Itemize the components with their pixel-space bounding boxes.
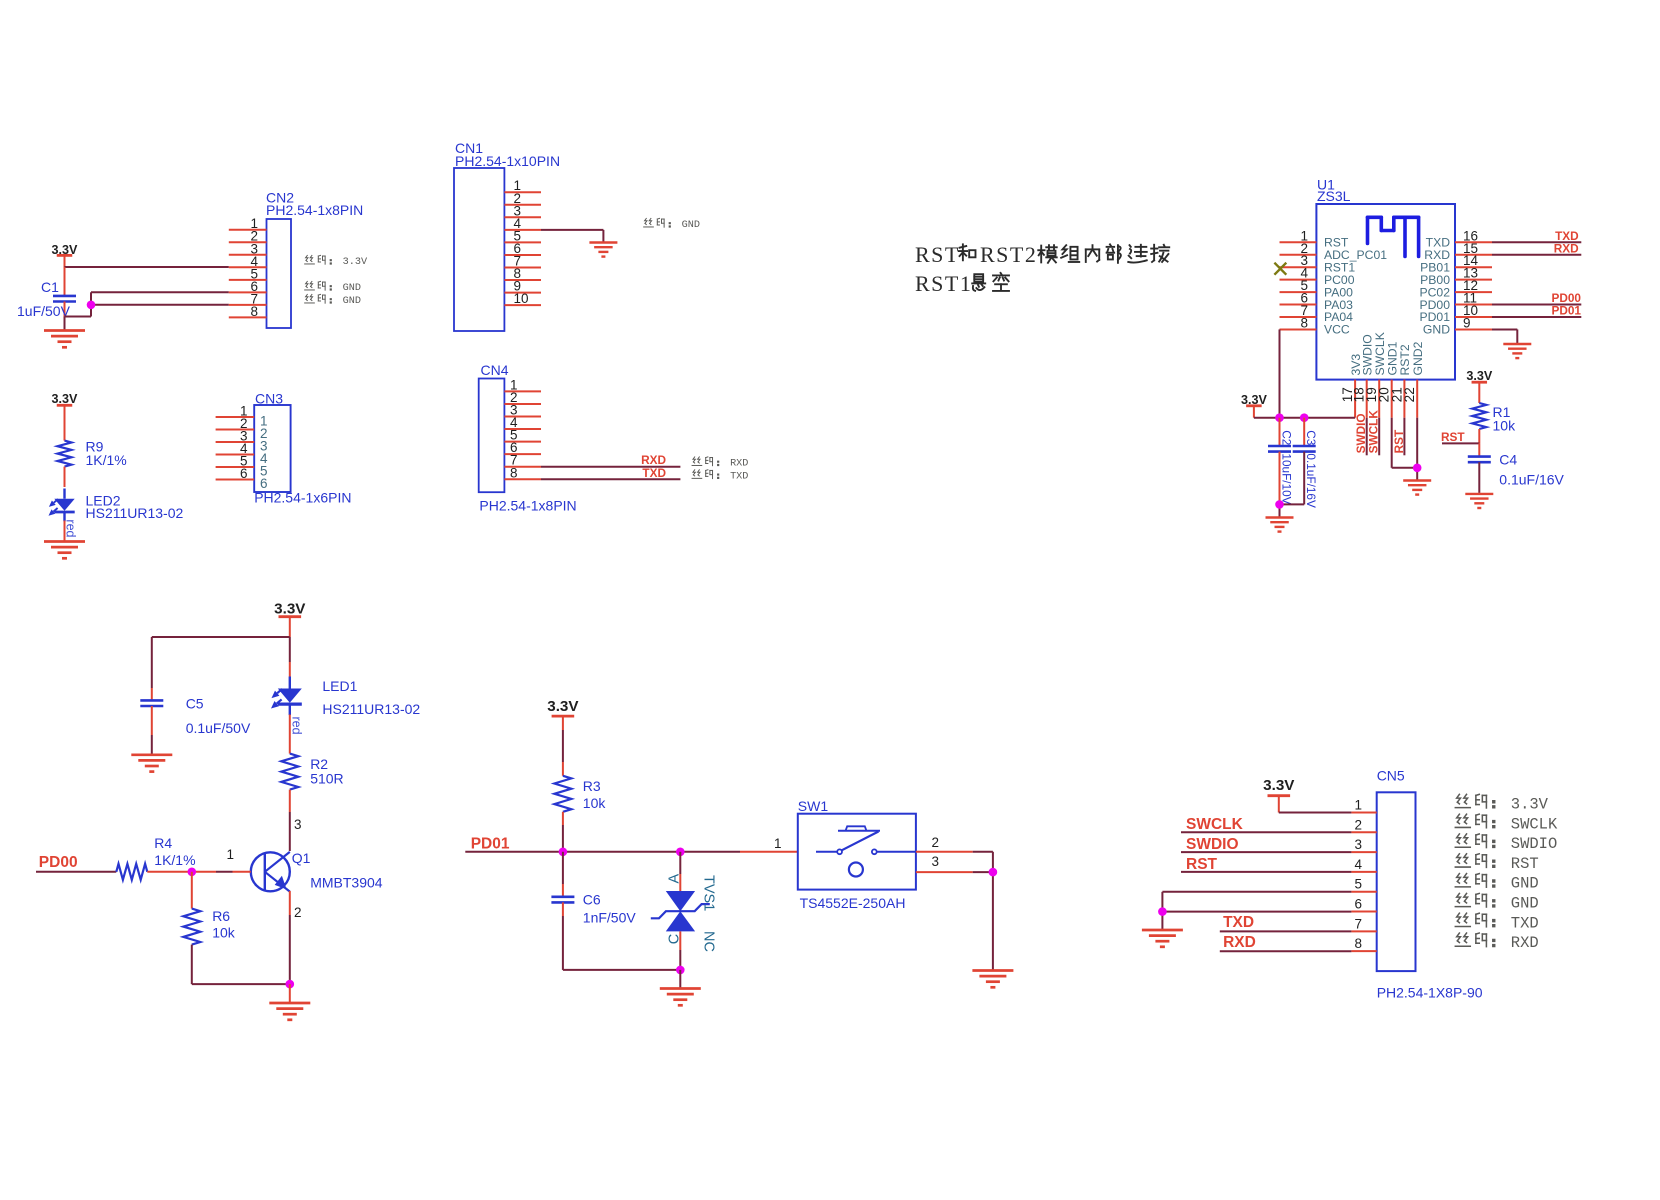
net label RXD at CN5 [1223,934,1256,951]
svg-text:RXD: RXD [1554,242,1579,256]
svg-text:SWCLK: SWCLK [1367,410,1381,454]
transistor Q1 MMBT3904 [251,850,383,892]
svg-text:CN3: CN3 [255,391,283,407]
resistor R1 10k [1472,403,1516,434]
svg-text:3: 3 [932,854,940,869]
svg-text:SW1: SW1 [798,798,829,814]
svg-text:6: 6 [240,466,248,481]
node junction rail/C2 [1275,413,1284,422]
TVS diode TVS1 [651,852,710,970]
svg-text:RST: RST [1392,429,1406,453]
svg-text:0.1uF/16V: 0.1uF/16V [1304,453,1318,508]
svg-text:1: 1 [774,836,782,851]
wire R2 to Q1 collector, pin 3 [289,790,291,851]
svg-text:C6: C6 [583,892,601,908]
note text RST internal connection line1 [915,242,1169,267]
ground at CN1 pin4 [589,243,617,257]
svg-text:5: 5 [1354,877,1362,892]
svg-text:0.1uF/50V: 0.1uF/50V [186,720,251,736]
capacitor C5 0.1uF/50V [140,688,251,736]
svg-text:C3: C3 [1304,430,1318,446]
svg-text:8: 8 [510,465,518,480]
svg-text:TXD: TXD [730,471,748,482]
svg-text:PH2.54-1X8P-90: PH2.54-1X8P-90 [1377,985,1483,1001]
svg-text:10k: 10k [212,925,236,941]
wire Q1 emitter down [289,891,291,984]
svg-text:PD00: PD00 [39,854,78,871]
svg-text:HS211UR13-02: HS211UR13-02 [322,701,420,717]
no-connect X on U1 pin3 RST1 [1274,263,1286,275]
node junction PD01/R3/C6 [559,848,568,857]
svg-text:1nF/50V: 1nF/50V [583,910,637,926]
wire R3 to PD01 node [562,812,564,852]
svg-text:NC: NC [701,931,717,952]
svg-text:red: red [289,717,303,735]
svg-text:R6: R6 [212,908,230,924]
svg-text:8: 8 [1354,936,1362,951]
svg-text:3.3V: 3.3V [274,601,306,618]
power 3.3V for LED1 [274,601,306,637]
wire CN4 pin8 TXD [541,478,680,480]
label NC vertical [701,931,717,952]
svg-text:SWCLK: SWCLK [1511,815,1558,833]
silkscreen note SWDIO for CN5 pin3 [1455,834,1557,853]
svg-text:Q1: Q1 [292,850,311,866]
net label SWDIO at CN5 [1186,836,1239,853]
svg-text:PH2.54-1x8PIN: PH2.54-1x8PIN [479,498,576,514]
capacitor C6 1nF/50V [551,852,636,970]
svg-text:RST: RST [915,242,960,267]
note text RST1 floating line2 [915,271,1009,296]
svg-text:RST2: RST2 [980,242,1037,267]
wire R4 to Q1 base [147,871,251,873]
svg-text:C: C [667,934,683,944]
svg-text:9: 9 [1463,315,1471,330]
svg-text:SWDIO: SWDIO [1186,836,1239,853]
connector CN1 PH2.54-1x10PIN [454,140,560,331]
svg-text:3: 3 [1354,837,1362,852]
svg-text:C2: C2 [1279,430,1293,445]
op-amp/module U1 ZS3L box [1316,176,1455,379]
capacitor C1 [17,267,76,319]
svg-text:3.3V: 3.3V [1511,796,1549,814]
svg-text:10: 10 [514,291,529,306]
ground at SW1 [972,971,1013,988]
wire to ground Q1 [289,984,291,1002]
ground under C4 [1465,494,1493,508]
wire SWCLK to CN5 pin2 [1181,831,1351,833]
net label PD01 at U1 [1551,304,1581,318]
svg-text:2: 2 [1354,817,1362,832]
svg-text:TXD: TXD [642,466,666,480]
power 3.3V for R3 [547,698,579,776]
silkscreen note 3.3V for CN5 pin1 [1455,794,1548,813]
wire U1 TXD pin16 [1492,241,1581,243]
svg-text:10k: 10k [1493,418,1517,434]
wire LED1 to R2 [289,715,291,754]
wire RST to CN5 pin4 [1181,871,1351,873]
wire RXD to CN5 pin8 [1220,950,1352,952]
svg-text:C1: C1 [41,279,59,295]
silkscreen note GND for CN1 pin4 [644,218,700,231]
wire R9 to LED2 [64,467,66,487]
svg-text:GND: GND [1423,323,1450,337]
svg-text:7: 7 [1354,916,1362,931]
U1 logo [1368,217,1419,256]
net label RXD at CN4 [641,453,666,467]
label TVS1 vertical [701,875,717,911]
svg-text:TVS1: TVS1 [701,875,717,911]
power 3.3V rail for U1 [1241,393,1268,418]
node junction SW1 pin3/gnd [989,868,998,877]
capacitor C2 10uF/10V [1268,418,1293,505]
pin number 2 of SW1 [932,835,940,850]
silkscreen note TXD for CN4 pin8 [692,470,748,483]
svg-text:6: 6 [1354,897,1362,912]
connector CN5 PH2.54-1X8P-90 [1351,768,1482,1001]
svg-text:PH2.54-1x10PIN: PH2.54-1x10PIN [455,153,560,169]
svg-text:HS211UR13-02: HS211UR13-02 [86,505,184,521]
svg-text:RXD: RXD [1223,934,1256,951]
svg-text:GND2: GND2 [1411,341,1425,375]
wire RST2 from U1 pin21 [1403,418,1405,456]
wire C2/C3 to ground [1280,504,1305,516]
net label PD01 [471,836,510,853]
svg-text:2: 2 [932,835,940,850]
wire C6 bottom to TVS bottom [563,969,680,971]
svg-text:C5: C5 [186,696,204,712]
node junction emitter/gnd [286,980,295,989]
svg-text:TS4552E-250AH: TS4552E-250AH [800,895,906,911]
svg-text:GND: GND [343,296,361,307]
net label TXD at CN5 [1223,914,1254,931]
svg-text:GND: GND [682,220,700,231]
pin number 2 of Q1 [294,905,302,920]
svg-text:1: 1 [1354,798,1362,813]
svg-text:RST: RST [1441,430,1465,444]
silkscreen note TXD for CN5 pin7 [1455,913,1538,932]
ground under Q1 [269,1003,310,1020]
svg-text:CN5: CN5 [1377,768,1405,784]
net label RST at CN5 [1186,856,1218,873]
wire 3.3V down to LED1 [289,637,291,677]
pin number 3 of SW1 [932,854,940,869]
svg-text:A: A [667,874,683,884]
svg-text:10k: 10k [583,795,607,811]
svg-text:C4: C4 [1499,452,1517,468]
wire SWDIO from U1 pin18 [1366,418,1368,456]
net label RXD at U1 [1554,242,1579,256]
net label TXD at U1 [1555,229,1579,243]
silkscreen note GND for CN2 pin7 [305,294,361,307]
wire U1 PD00 pin11 [1492,304,1581,306]
node junction PD01/TVS1 [676,848,685,857]
svg-text:3.3V: 3.3V [343,257,368,268]
label C cathode TVS1 [667,934,683,944]
label A anode TVS1 [667,874,683,884]
svg-text:8: 8 [250,304,258,319]
LED LED2 HS211UR13-02 [49,489,184,522]
resistor R3 10k [554,776,606,812]
svg-text:3.3V: 3.3V [1263,777,1295,794]
svg-text:CN4: CN4 [481,362,509,378]
wire C5 to ground [151,735,153,754]
svg-text:GND: GND [343,283,361,294]
node junction base/R6 [188,868,197,877]
svg-text:TXD: TXD [1223,914,1254,931]
ground under TVS1 [660,989,701,1006]
connector CN3 PH2.54-1x6PIN [216,391,352,506]
wire 3.3V to CN2 pin4 [65,266,229,268]
wire U1 GND pin9 to ground [1492,329,1517,343]
U1 side pins 1-16 [1280,228,1493,336]
wire C1 gnd net to CN2 pins 6,7 [65,292,229,329]
wire CN5 pin5 to ground [1162,892,1351,912]
wire SW1 pin2 to ground [916,852,993,872]
svg-text:TXD: TXD [1511,914,1539,932]
wire CN4 pin7 RXD [541,466,680,468]
svg-text:SWDIO: SWDIO [1511,835,1558,853]
power 3.3V net C1/CN2 [52,243,79,267]
svg-text:RST1: RST1 [915,271,972,296]
wire VCC pin8 down to rail [1279,329,1281,417]
ground at CN5 [1142,930,1183,947]
net label TXD at CN4 [642,466,666,480]
node junction C6/TVS1 gnd [676,966,685,975]
node junction C2 gnd [1275,500,1284,509]
svg-text:1uF/50V: 1uF/50V [17,303,71,319]
silkscreen note GND for CN5 pin6 [1455,893,1538,912]
wire GND1/GND2 pins 20,22 to ground [1392,418,1418,480]
wire LED2 to ground [64,521,66,541]
wire U1 RXD pin15 [1492,254,1581,256]
svg-text:PD01: PD01 [1551,304,1581,318]
label red (LED2 colour) [64,519,78,537]
node junction GND2 [1413,464,1422,473]
svg-text:22: 22 [1402,387,1417,402]
LED LED1 HS211UR13-02 [271,677,420,718]
net label RST at R1 [1441,430,1465,444]
svg-text:LED1: LED1 [322,678,357,694]
svg-text:PH2.54-1x8PIN: PH2.54-1x8PIN [266,202,363,218]
capacitor C4 0.1uF/16V [1468,443,1565,493]
net label SWCLK at CN5 [1186,816,1244,833]
resistor R6 10k [183,872,235,945]
svg-text:R4: R4 [154,835,172,851]
U1 bottom pins 17-22 [1340,332,1425,418]
wire 3.3V to C5 branch [152,637,290,688]
svg-text:SWCLK: SWCLK [1186,816,1244,833]
power 3.3V for R1 [1466,369,1493,403]
net label RST vertical [1392,429,1406,453]
node junction CN5 gnd [1158,907,1167,916]
wire SWCLK from U1 pin19 [1378,418,1380,456]
ground under C2/C3 [1266,518,1294,532]
svg-text:PH2.54-1x6PIN: PH2.54-1x6PIN [254,490,351,506]
svg-text:8: 8 [1300,315,1308,330]
connector CN2 PH2.54-1x8PIN [229,190,363,329]
svg-text:VCC: VCC [1324,323,1350,337]
wire CN5 pin6 to ground [1162,912,1351,929]
pin number 1 of Q1 [227,847,235,862]
svg-text:R3: R3 [583,778,601,794]
wire CN1 pin4 to ground [541,230,603,242]
svg-text:1K/1%: 1K/1% [86,452,127,468]
silkscreen note GND for CN2 pin6 [305,281,361,294]
pin number 1 of SW1 [774,836,782,851]
svg-text:1: 1 [227,847,235,862]
svg-text:GND: GND [1511,895,1539,913]
net label SWCLK vertical [1367,410,1381,454]
svg-text:MMBT3904: MMBT3904 [310,875,383,891]
wire R6 to emitter node [192,945,290,985]
resistor R9 1K/1% [58,439,127,469]
svg-text:4: 4 [1354,857,1362,872]
wire 3.3V rail to U1 3V3 pin17 [1254,417,1355,419]
wire 3.3V to CN5 pin1 [1279,812,1352,814]
wire R1 to RST node [1442,429,1479,443]
silkscreen note RST for CN5 pin4 [1455,854,1538,873]
silkscreen note SWCLK for CN5 pin2 [1455,814,1558,833]
silkscreen note RXD for CN4 pin7 [692,457,748,470]
wire SWDIO to CN5 pin3 [1181,851,1351,853]
silkscreen note RXD for CN5 pin8 [1455,933,1538,952]
svg-text:red: red [64,519,78,537]
silkscreen note 3.3V for CN2 pin4 [305,255,368,268]
svg-text:2: 2 [294,905,302,920]
svg-text:0.1uF/16V: 0.1uF/16V [1499,472,1564,488]
resistor R2 510R [281,754,343,790]
ground under LED2 [44,542,85,559]
svg-text:RST: RST [1511,855,1539,873]
net label PD00 at U1 [1551,291,1581,305]
capacitor C3 0.1uF/16V [1293,418,1318,508]
wire TXD to CN5 pin7 [1220,930,1352,932]
svg-text:RXD: RXD [1511,934,1539,952]
wire PD01 horizontal [465,851,798,853]
resistor R4 1K/1% [116,835,195,880]
svg-text:PD01: PD01 [471,836,510,853]
svg-text:ZS3L: ZS3L [1317,188,1351,204]
power 3.3V for R9 [52,392,79,440]
node junction C1/CN2 pin7 [87,301,96,310]
svg-text:1K/1%: 1K/1% [154,852,195,868]
ground under U1 RST2/GND pins [1403,481,1431,495]
svg-text:RXD: RXD [730,459,748,470]
pin number 3 of Q1 [294,817,302,832]
svg-text:3.3V: 3.3V [547,698,579,715]
wire U1 PD01 pin10 [1492,316,1581,318]
wire SW1 pin3 to ground [916,872,993,969]
label red (LED1 colour) [289,717,303,735]
switch SW1 TS4552E-250AH [798,798,916,911]
wire PD00 to R4 [36,871,116,873]
connector CN4 PH2.54-1x8PIN [479,362,577,514]
ground under C1 [44,331,85,348]
svg-text:GND: GND [1511,875,1539,893]
ground at U1 pin9 [1503,344,1531,358]
power 3.3V for CN5 [1263,777,1295,813]
wire TVS to ground [679,970,681,988]
silkscreen note GND for CN5 pin5 [1455,874,1538,893]
net label SWDIO vertical [1354,413,1368,453]
node junction rail/C3 [1300,413,1309,422]
svg-text:10uF/10V: 10uF/10V [1279,453,1293,504]
svg-text:3: 3 [294,817,302,832]
net label PD00 [39,854,78,871]
svg-text:RST: RST [1186,856,1218,873]
svg-text:510R: 510R [310,771,343,787]
ground under C5 [131,755,172,772]
